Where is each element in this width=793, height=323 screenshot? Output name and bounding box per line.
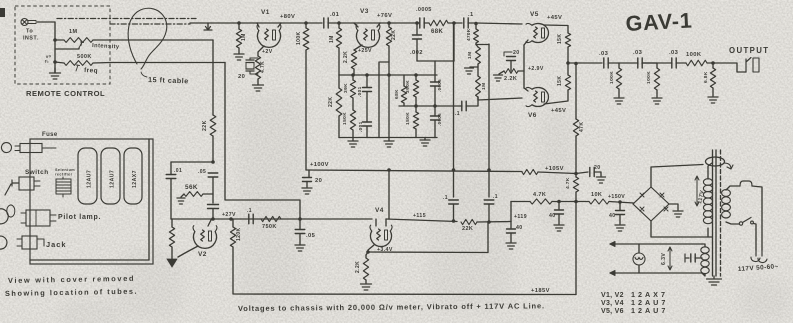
resistor 56K (tank) [184,184,213,196]
svg-text:freq: freq [84,67,98,75]
svg-text:68K: 68K [394,89,400,99]
V3 grid lead [354,23,358,27]
capacitor .1 (V6 grid coupling) [455,97,478,117]
wire V3 plate along top [380,22,419,24]
svg-text:100K: 100K [609,71,615,84]
ground (56K) [177,194,185,204]
node B1 [414,104,418,108]
label +3.4V [377,247,393,253]
capacitor .0005 (col8 lower) [431,106,443,138]
svg-text:40: 40 [549,213,556,219]
AC plug [751,250,767,263]
tube V5 [526,23,548,42]
svg-text:10K: 10K [591,192,602,198]
node on remote bus at intensity [53,38,57,42]
svg-text:12AU7: 12AU7 [110,170,116,188]
wire network to .1 V6 [460,105,462,107]
svg-text:6.8K: 6.8K [703,71,709,83]
resistor 1M (V1 grid) [236,23,247,48]
svg-text:.05: .05 [306,233,316,239]
capacitor 20 (V1 cathode bypass) [238,58,258,80]
wire bridge bottom [651,221,712,237]
svg-text:rectifier: rectifier [55,173,73,177]
wire 22K to node [477,221,511,224]
label V3 [360,8,369,15]
svg-text:1M: 1M [467,52,473,59]
node 40uF mid [557,200,561,204]
svg-text:+105V: +105V [545,166,564,172]
svg-text:1M: 1M [69,29,77,35]
label Jack [46,240,66,249]
svg-text:.1: .1 [493,194,498,200]
node A3 [387,73,391,77]
svg-text:750K: 750K [262,224,277,230]
capacitor .1 (x453) [443,195,458,223]
tube V1 [257,25,281,48]
remote bus vertical wire [54,22,56,73]
resistor 22K (oscillator) [202,115,216,136]
transformer core [713,150,721,276]
wire intensity tap [55,48,79,49]
ground (network right) [420,138,430,147]
ground (+105 filter) [597,177,606,183]
V2 grid lead [208,220,211,226]
svg-text:.1: .1 [443,195,448,201]
svg-text:GAV-1: GAV-1 [625,9,693,36]
chassis pilot lamp [0,205,56,226]
pilot lamp [633,244,645,273]
potentiometer 500K freq [64,61,98,75]
svg-text:40: 40 [516,225,523,231]
label REMOTE CONTROL [26,89,105,98]
resistor 22K (+115 feed) [461,219,477,232]
chassis jack [0,236,44,249]
resistor 22K (network col1) [328,75,342,138]
svg-text:+25V: +25V [358,48,372,54]
svg-text:68K: 68K [431,29,443,35]
label V4 [375,207,384,214]
wire col4 [378,62,380,138]
tube list line 1 [601,290,668,299]
wire 22K down to bus [388,46,390,75]
svg-text:22K: 22K [391,30,397,40]
wire line winding bottom to switch [726,222,739,224]
transformer primary winding [703,163,712,237]
node V3 grid resistor [337,21,341,25]
svg-text:22K: 22K [202,120,208,131]
svg-text:6.3V: 6.3V [661,253,667,265]
heater wire top [610,242,702,247]
node V4 cathode [366,250,370,254]
label V5 [530,11,539,18]
chassis switch [5,177,40,195]
svg-text:20: 20 [513,50,520,56]
label V6 [528,112,537,119]
V4 cathode lead [368,245,374,252]
svg-text:2.2K: 2.2K [343,51,349,63]
grid bus wire [171,218,372,220]
svg-text:150K: 150K [342,112,348,125]
svg-text:+80V: +80V [280,14,295,20]
svg-text:Pilot lamp.: Pilot lamp. [58,214,101,221]
node top wire 22K [387,21,391,25]
caption line 2 [5,287,138,298]
node B2 [433,104,437,108]
resistor 2.2K (V3 cathode) [343,50,357,69]
node plate load [304,21,308,25]
wire divider to V6 grid [478,97,522,100]
wire out 2-3 [642,62,672,64]
svg-text:.1: .1 [455,111,460,117]
svg-text:15 ft cable: 15 ft cable [148,75,189,85]
V1 cathode lead [258,46,264,56]
+100V rail wire [306,170,522,172]
wire 1M to lower bus [338,48,340,75]
svg-text:47K: 47K [579,122,585,132]
resistor 100K (out series) [676,52,707,66]
wire cap to V3 grid [328,22,380,24]
svg-text:150K: 150K [405,112,411,125]
svg-text:V3, V4: V3, V4 [601,300,624,307]
svg-text:V2: V2 [198,251,207,258]
resistor 15K (V5 plate) [557,33,571,47]
+105V feed resistor [522,169,538,174]
node +119 branch [487,220,491,224]
ground (V4 cathode) [361,280,372,290]
capacitor 40 (+119 filter) [507,222,523,243]
svg-text:12AU7: 12AU7 [87,170,93,188]
wire freq down to corner [225,63,300,220]
wire capline x489 [488,44,490,197]
caption line 1 [8,274,135,285]
svg-text:15K: 15K [557,76,563,86]
wire plug to bus [36,21,55,23]
wire 120K to +185 rail [233,247,576,295]
svg-text:.001: .001 [358,121,363,132]
node out [707,61,715,65]
svg-text:4.7K: 4.7K [533,192,546,198]
ground (out load) [708,88,718,103]
node +150 [609,200,634,204]
resistor 68K (network col6) [394,75,407,106]
svg-text:.01: .01 [174,168,182,174]
ground (out shunt 2) [652,90,662,104]
V2 cathode lead [178,246,198,257]
svg-text:.0005: .0005 [416,7,432,13]
resistor 68K (top chain) [424,20,448,35]
svg-text:1M: 1M [329,35,335,43]
svg-text:OUTPUT: OUTPUT [729,46,769,55]
label +119 [514,214,527,220]
wire capline x453 [453,23,455,197]
wire .002 jog [417,23,454,61]
tube V2 [193,226,217,249]
cable dash-dot line (signal) [110,23,190,25]
label +115V [413,213,426,219]
capacitor .001 (network col3) [357,75,372,122]
label Pilot lamp [58,214,101,221]
resistor 100K (V1 plate load) [296,23,309,50]
chassis fuse [1,143,56,153]
tube V6 [526,87,548,106]
transformer line winding [722,190,731,218]
resistor 15K (V6 plate) [557,75,571,90]
svg-text:Switch: Switch [25,169,49,176]
wire power vertical to +185 rail [575,202,577,295]
potentiometer 1M Intensity [55,38,120,51]
15 ft cable loop [128,8,167,69]
svg-text:Fuse: Fuse [42,132,58,138]
capacitor .03 (out 3) [669,50,679,68]
transformer 6.3V winding [701,244,709,276]
power switch [739,218,756,251]
wire V1 plate to coupling cap [281,22,322,24]
capacitor 20 (splitter bypass) [504,50,520,71]
chassis tube 12AX7 [124,148,142,204]
output wire from junction [568,62,602,64]
svg-text:+27V: +27V [222,212,236,218]
tube V4 [370,225,392,246]
ground arrow (osc left) [167,247,177,267]
cable line (intensity) [93,39,213,41]
svg-text:.03: .03 [599,51,609,57]
resistor 2.2K (V4 cathode) [355,252,369,280]
oscillator tank top wire [171,161,213,163]
resistor 39K (network col2) [343,75,356,98]
svg-text:15K: 15K [557,34,563,44]
svg-text:100K: 100K [296,31,302,45]
tube list line 2 [601,298,668,307]
ground (V1 cathode) [253,79,264,91]
resistor 4.7K (V1 cathode) [255,56,266,79]
resistor 120K (V2) [230,219,242,247]
tube V3 [356,25,380,48]
B+ rail wire [511,201,530,203]
main input wire [190,22,281,24]
svg-text:22K: 22K [462,226,473,232]
chassis selenium rectifier [56,177,71,197]
node rail V4 feed [387,168,391,172]
svg-text:.0005: .0005 [437,113,442,126]
ground (+119 filter) [506,243,516,249]
resistor 470K (V5 grid) [466,22,478,43]
node osc grid [211,217,215,221]
label +25V [358,48,372,54]
svg-text:120K: 120K [236,227,242,241]
V4 plate lead [385,219,387,226]
capacitor 20 (+105 filter) [576,165,601,177]
svg-text:100K: 100K [646,71,652,84]
freq pot left wire [55,62,64,63]
svg-text:.01: .01 [330,12,340,18]
resistor 10K (B+ rail) [589,192,609,204]
svg-text:REMOTE CONTROL: REMOTE CONTROL [26,89,105,98]
ground (network left) [348,138,358,148]
svg-text:40: 40 [609,213,616,219]
svg-text:V5: V5 [530,11,539,18]
resistor 4.7K (B+ rail) [530,192,552,204]
resistor 4.7K (power vertical lower) [565,177,579,202]
svg-text:12AX7: 12AX7 [132,170,138,188]
label +105V [545,166,564,172]
ground (network mid) [384,138,394,148]
+115 wire [386,219,457,222]
svg-text:V1, V2: V1, V2 [601,292,624,299]
svg-text:V4: V4 [375,207,384,214]
ground (out shunt 1) [614,89,624,104]
svg-text:500K: 500K [77,54,92,60]
wire bridge top to fuse [651,165,703,188]
tube list line 3 [601,306,668,315]
wire plate load to +100V rail [305,50,307,170]
V1 plate lead [278,23,281,27]
ground (bridge) [673,211,683,217]
label V2 [198,251,207,258]
svg-text:.03: .03 [669,50,679,56]
svg-text:.1: .1 [247,208,252,214]
svg-text:+100V: +100V [310,162,329,168]
node top chain [452,21,456,25]
wire to V5 grid [468,23,522,24]
ground (remote control) [50,68,61,79]
resistor 390K (network col7) [405,75,419,106]
wire out 1-2 [619,62,638,64]
wire line winding top with fuse hump [726,181,762,250]
resistor 100K (out shunt 2) [642,63,660,90]
svg-text:.05: .05 [198,169,206,175]
chassis box [30,139,153,264]
svg-text:fl.: fl. [44,58,50,64]
ground (divider) [465,64,479,74]
resistor 22K (V3 plate-bus) [386,23,397,46]
label Fuse [42,132,58,138]
label 1M [69,29,77,35]
node A1 [351,73,355,77]
resistor (osc left) [169,219,174,247]
wire 4.7K to node [552,200,589,204]
wire col5 [388,75,390,138]
V5 cathode lead [524,40,528,45]
capacitor 20 (+100V filter) [303,170,323,187]
svg-text:22K: 22K [328,97,334,107]
wire 2.2K to bus [353,69,355,75]
capacitor (heater bypass) [685,254,702,262]
ground (+150 filter) [615,225,625,231]
ground (splitter cathode) [494,71,505,81]
svg-text:V1: V1 [261,9,270,16]
capacitor .1 (x489) [484,194,498,223]
chassis tube 12AU7 (2) [101,148,120,204]
svg-text:+115: +115 [413,213,426,219]
label OUTPUT [729,46,769,55]
remote control dashed enclosure [15,6,110,84]
svg-text:1M: 1M [241,33,247,41]
node +105 [574,136,578,177]
label +45V (V5) [547,15,562,21]
input plug To INST. [21,18,39,41]
capacitor (osc grid) [208,205,219,220]
label +2V [262,49,273,55]
wire rail to V4 [388,170,390,219]
title GAV-1 [625,9,693,36]
svg-text:+2V: +2V [262,49,273,55]
label +80V [280,14,295,20]
svg-text:100K: 100K [686,52,702,58]
node output junction [566,47,570,75]
capacitor .1 (osc out) [247,208,253,224]
V3 plate lead [377,23,380,27]
resistor 750K [261,216,281,230]
svg-text:2.2K: 2.2K [355,261,361,273]
svg-text:390K: 390K [405,80,411,93]
resistor 1M (V3 grid) [329,23,342,48]
capacitor .0005 (top chain) [416,7,432,28]
svg-text:.03: .03 [633,50,643,56]
svg-text:.1: .1 [468,12,474,18]
V6 plate wire [544,90,568,104]
cable line (freq) [93,62,225,65]
svg-text:4.7K: 4.7K [565,177,571,189]
svg-text:+45V: +45V [547,15,562,21]
capacitor .01 (tank left) [166,162,182,219]
wire intensity down [212,40,214,115]
capacitor .03 (out 2) [633,50,643,68]
V4 cathode return wire [368,223,488,253]
V1 grid lead [257,23,259,27]
capacitor .05 (V4 grid) [295,219,315,245]
node rail x489 [487,168,491,172]
ground (+100V filter) [302,188,312,194]
label +45V (V6) [551,108,566,114]
wire 22K to tank [212,136,214,162]
node divider [476,43,489,45]
label +76V [377,13,392,19]
wire +119 up to rail [510,202,512,222]
node A2 [365,73,369,77]
svg-text:20: 20 [594,165,601,171]
resistor 1M (V6 grid) [476,67,487,97]
svg-text:.001: .001 [357,86,362,97]
svg-text:INST.: INST. [23,36,39,42]
V4 grid lead [375,219,377,226]
svg-text:+150V: +150V [608,194,625,200]
svg-text:56K: 56K [185,184,198,191]
label +2.9V [528,66,544,72]
label V1 [261,9,270,16]
label +185V [531,288,550,294]
label 500K [77,54,92,60]
V3 cathode lead [354,45,362,50]
V6 cathode lead [524,88,528,91]
capacitor .05 (tank mid) [198,169,218,203]
svg-text:V6: V6 [528,112,537,119]
svg-text:470K: 470K [466,28,471,41]
svg-text:+76V: +76V [377,13,392,19]
capacitor 40 (mid filter) [549,202,564,225]
capacitor .001 (network col3 lower) [358,121,372,137]
svg-text:4.7K: 4.7K [260,61,266,73]
label 117V winding [695,176,706,206]
label 117V 50-60 [738,263,779,273]
node main wire / 1M grid [237,21,241,25]
bus wire A [339,74,437,76]
resistor 150K (network col2 lower) [342,98,356,138]
wire power vertical top [574,62,578,119]
ground (V1 grid resistor) [234,48,244,60]
svg-text:V5, V6: V5, V6 [601,308,624,315]
label Switch [25,169,49,176]
svg-text:V3: V3 [360,8,369,15]
